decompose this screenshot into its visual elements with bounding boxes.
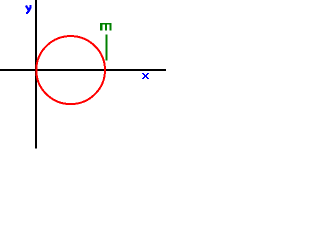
line m (green vertical segment) <box>106 34 108 60</box>
x-axis <box>0 69 166 71</box>
label y <box>26 5 31 13</box>
label m <box>100 23 111 31</box>
circle (red, tangent to y-axis at origin) <box>36 36 105 104</box>
y-axis <box>35 0 37 149</box>
label x <box>142 73 149 79</box>
